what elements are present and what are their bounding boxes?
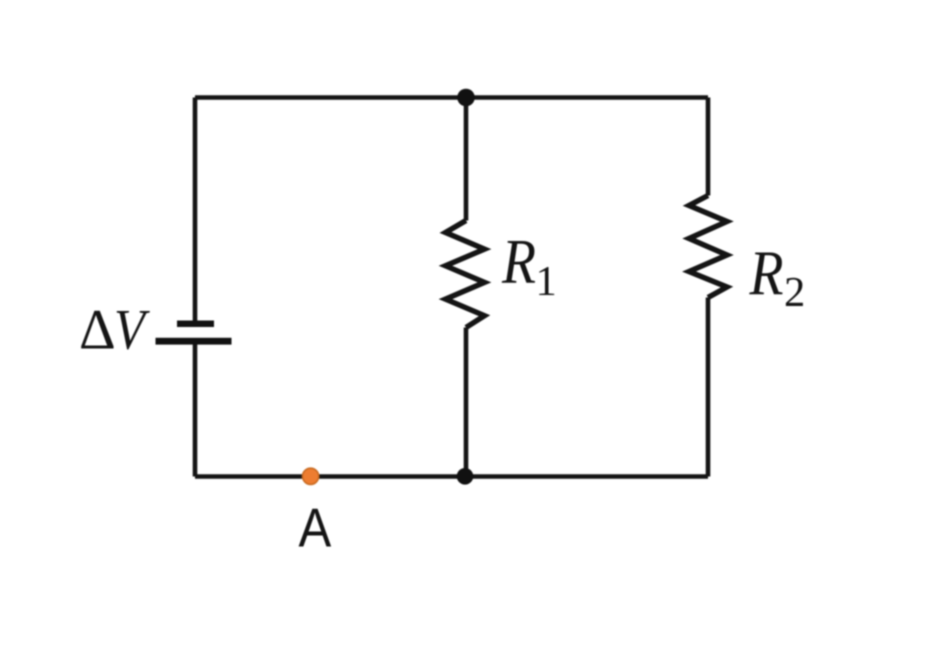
wire middle lower (R1 to bottom junction) <box>464 328 469 477</box>
svg-text:1: 1 <box>536 258 557 305</box>
wire right upper (top wire to R2) <box>706 98 711 196</box>
label deltaV <box>79 298 151 362</box>
svg-text:2: 2 <box>784 269 805 316</box>
junction top (node where R1 branch meets top wire) <box>457 89 475 107</box>
svg-text:Δ: Δ <box>79 299 116 362</box>
label R1 <box>501 226 557 305</box>
resistor R2 <box>689 196 727 298</box>
wire middle upper (top junction to R1) <box>464 98 469 221</box>
wire top (node between battery +, R1 and R2) <box>195 95 708 100</box>
svg-text:R: R <box>749 238 784 308</box>
svg-text:R: R <box>501 226 536 296</box>
battery (voltage source) <box>156 321 232 345</box>
resistor R1 <box>446 221 485 328</box>
wire left upper (battery + to top wire) <box>193 98 198 323</box>
wire bottom (node through A and junction) <box>195 474 708 479</box>
node A (orange dot on bottom wire) <box>303 468 319 484</box>
svg-text:V: V <box>114 298 151 361</box>
svg-text:A: A <box>299 497 332 558</box>
junction bottom (node where R1 branch meets bottom wire) <box>457 468 474 485</box>
wire left lower (battery - to bottom wire) <box>193 340 198 477</box>
wire right lower (R2 to bottom wire) <box>706 298 711 477</box>
label R2 <box>749 238 806 316</box>
